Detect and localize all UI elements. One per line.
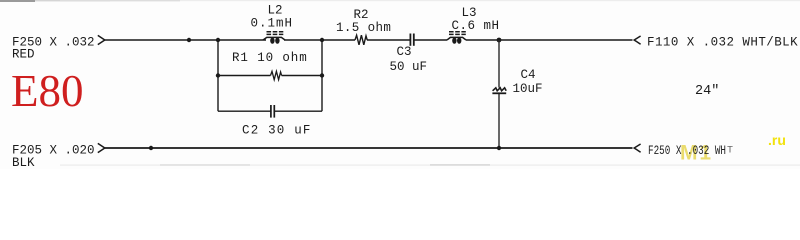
input port arrow (bottom) [98,143,105,152]
capacitor C2 [218,105,322,118]
label R2 [354,8,369,22]
capacitor C4 (polarized) [492,88,506,94]
node dot at right box junction [320,38,324,42]
svg-text:E80: E80 [11,66,84,116]
watermark yellow letters [680,142,711,165]
node dot on top rail [187,38,191,42]
inductor L3 [447,32,466,44]
node dot at left box junction [216,38,220,42]
svg-text:L3: L3 [462,6,477,20]
node dot C4 bottom junction [497,146,501,150]
label L3 [462,6,477,20]
wire left box vertical [217,40,219,111]
svg-text:10uF: 10uF [513,82,543,96]
wire bottom rail [105,147,633,149]
label C4 [521,68,536,82]
output port arrow (bottom right) [634,144,640,152]
svg-text:T: T [727,146,733,157]
scan noise top edge [0,0,800,2]
input port arrow (top) [98,35,105,44]
value 50 uF [390,60,428,74]
watermark .ru [768,132,786,148]
label F250 X .032 (top-left net name) [12,36,95,50]
svg-text:C4: C4 [521,68,536,82]
svg-text:C.6 mH: C.6 mH [452,19,500,33]
node dot R1 right [320,73,324,77]
svg-text:0.1mH: 0.1mH [251,16,294,30]
resistor R2 [355,35,367,45]
output port arrow (top right) [634,36,640,44]
label L2 [268,4,283,18]
wire top rail [105,39,633,41]
svg-text:R1 10 ohm: R1 10 ohm [232,51,308,65]
svg-text:F110 X .032 WHT/BLK: F110 X .032 WHT/BLK [647,36,798,50]
resistor R1 [218,71,322,79]
wire right box vertical [321,40,323,111]
svg-text:RED: RED [12,48,35,62]
label BLK [12,156,35,170]
label RED [12,48,35,62]
svg-text:1.5 ohm: 1.5 ohm [336,21,391,35]
label F205 X .020 (bottom-left net name) [12,144,95,158]
capacitor C3 (series) [410,34,413,46]
label F110 X .032 WHT/BLK [647,36,798,50]
inductor L2 [263,32,285,44]
svg-text:C2 30 uF: C2 30 uF [242,123,312,137]
label R1 10 ohm [232,51,308,65]
value C.6 mH [452,19,500,33]
scan noise bottom edge [60,164,800,166]
node dot R1 left [216,73,220,77]
svg-text:50 uF: 50 uF [390,60,428,74]
node dot at C4 junction top [497,38,502,43]
label C2 30 uF [242,123,312,137]
svg-text:F250 X .032 WH: F250 X .032 WH [648,144,726,158]
node dot bottom rail [149,146,153,150]
label C3 [397,45,412,59]
value 10uF [513,82,543,96]
label 24" [695,84,719,99]
label E80 (red model number) [11,66,84,116]
value 0.1mH [251,16,294,30]
svg-text:.ru: .ru [768,132,786,148]
svg-text:C3: C3 [397,45,412,59]
svg-text:BLK: BLK [12,156,35,169]
value 1.5 ohm [336,21,391,35]
svg-text:24": 24" [695,84,719,99]
label F250 X .032 WHT (bottom-right net name) [648,144,733,158]
wire C4 vertical branch [498,40,500,148]
